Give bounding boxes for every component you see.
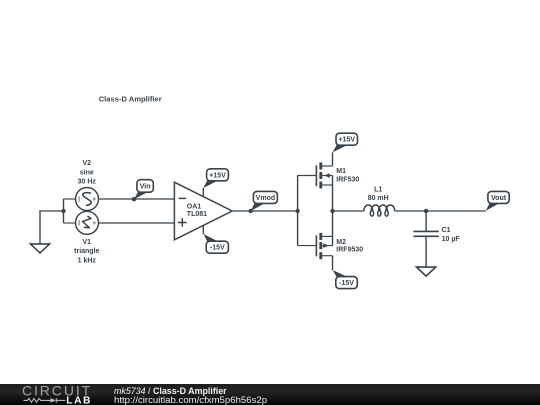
svg-text:OA1: OA1 [187, 204, 202, 211]
node: capacitor junction [424, 209, 428, 213]
V1 triangle glyph [83, 216, 92, 228]
svg-text:Vout: Vout [491, 195, 507, 202]
label L1 80 mH [368, 186, 389, 202]
flag -15V (M2) [333, 270, 358, 289]
V2 sine glyph [83, 193, 91, 206]
transistor M2 IRF9530 (PMOS) [316, 233, 332, 259]
svg-text:C1: C1 [442, 227, 451, 234]
svg-text:IRF530: IRF530 [336, 177, 359, 184]
svg-text:10 µF: 10 µF [442, 236, 461, 243]
node: output junction [330, 209, 334, 213]
wire: output junction to inductor [333, 210, 364, 212]
V1 plus polarity mark [93, 221, 96, 224]
svg-text:+15V: +15V [209, 172, 226, 179]
svg-text:L1: L1 [374, 186, 382, 193]
op-amp negative supply stub [202, 226, 204, 234]
flag +15V (op-amp) [203, 169, 228, 188]
svg-text:sine: sine [80, 169, 94, 176]
V2 minus polarity mark [78, 196, 80, 202]
wire: inductor to Vout wire end [395, 210, 486, 212]
wire: bottom net V1 right terminal to op-amp plus input [98, 222, 174, 224]
svg-text:M1: M1 [336, 168, 346, 175]
op-amp positive supply stub [202, 188, 204, 196]
svg-text:+15V: +15V [338, 137, 355, 144]
op-amp minus input mark [179, 197, 187, 199]
V2 plus polarity mark [93, 197, 96, 200]
label M2 IRF9530 [336, 239, 363, 253]
svg-text:triangle: triangle [74, 248, 99, 255]
svg-text:30 Hz: 30 Hz [78, 179, 97, 186]
wire: top net V2 right terminal to op-amp minus input [98, 198, 174, 200]
op-amp plus input mark [178, 218, 187, 227]
wire: M2 gate lead [298, 245, 316, 247]
wire: junction to ground corner [39, 210, 63, 212]
svg-text:Vmod: Vmod [256, 195, 275, 202]
svg-text:-15V: -15V [339, 280, 354, 287]
svg-text:M2: M2 [336, 239, 346, 246]
node: junction of source left terminals [61, 209, 65, 213]
label V1 triangle 1 kHz [74, 239, 99, 265]
svg-text:http://circuitlab.com/cfxm5p6h: http://circuitlab.com/cfxm5p6h56s2p [114, 395, 267, 405]
svg-text:80 mH: 80 mH [368, 195, 389, 202]
svg-text:V1: V1 [83, 239, 92, 246]
ground symbol under sources [30, 244, 49, 253]
flag Vin [132, 180, 153, 202]
flag -15V (op-amp) [203, 234, 228, 253]
flag Vmod [248, 191, 277, 213]
logo resistor-diode squiggle [24, 398, 66, 403]
wire: op-amp output to gate bus [232, 210, 297, 212]
voltage source V1 (triangle) circle [76, 211, 99, 234]
node: gate bus junction [295, 209, 299, 213]
flag Vout [486, 191, 509, 210]
svg-text:LAB: LAB [66, 395, 92, 405]
op-amp OA1 triangle [174, 182, 232, 240]
label OA1 TL081 [187, 204, 207, 219]
wire: M1 source down to output junction [332, 185, 334, 211]
wire: V2 left lead [64, 198, 76, 200]
wire: M1 gate lead [298, 175, 316, 177]
label C1 10 uF [442, 227, 461, 243]
wire: gate bus vertical [297, 176, 299, 246]
V1 minus polarity mark [78, 220, 80, 226]
ground symbol under capacitor [417, 267, 436, 276]
svg-text:Vin: Vin [140, 183, 151, 190]
flag +15V (M1) [333, 133, 358, 152]
footer bar [0, 382, 540, 405]
capacitor C1 plates [413, 231, 438, 236]
wire: vertical link between source left terminals [63, 199, 65, 223]
label M1 IRF530 [336, 168, 359, 183]
wire: capacitor bottom lead [425, 236, 427, 267]
wire: capacitor top lead [425, 211, 427, 231]
svg-text:-15V: -15V [210, 245, 225, 252]
transistor M1 IRF530 (NMOS) [316, 163, 332, 189]
svg-text:Class-D Amplifier: Class-D Amplifier [99, 94, 162, 103]
label V2 sine 30 Hz [78, 160, 97, 186]
svg-text:IRF9530: IRF9530 [336, 247, 363, 254]
svg-text:TL081: TL081 [187, 211, 207, 218]
wire: +15V to M1 drain [332, 152, 334, 166]
wire: output junction down to M2 top lead [332, 211, 334, 236]
wire: M2 bottom lead to -15V [332, 256, 334, 270]
svg-text:1 kHz: 1 kHz [78, 258, 97, 265]
wire: V1 left lead [64, 222, 76, 224]
svg-text:V2: V2 [83, 160, 92, 167]
voltage source V2 (sine) circle [76, 188, 99, 211]
inductor L1 coil [364, 205, 395, 216]
